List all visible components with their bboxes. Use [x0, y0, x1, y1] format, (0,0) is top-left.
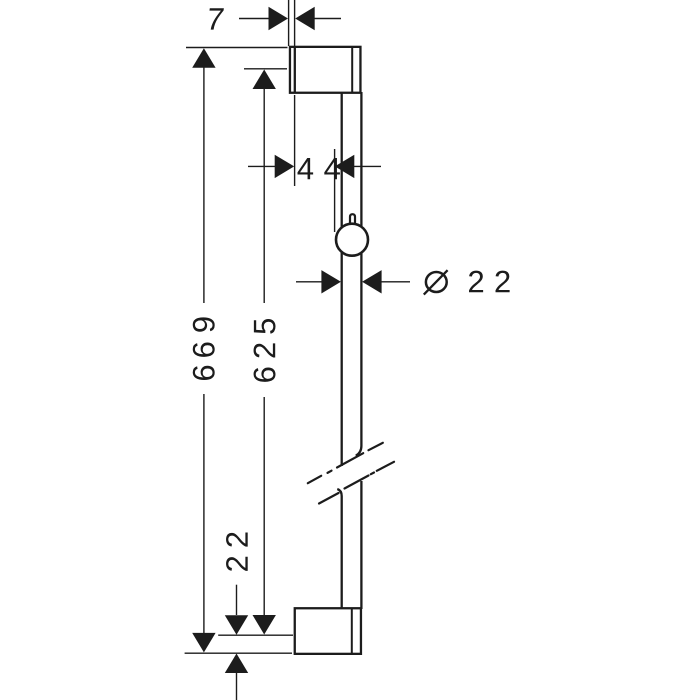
dimension label 7	[207, 8, 224, 29]
669 down arrow	[192, 633, 215, 653]
rail right edge upper segment with hook	[356, 92, 362, 456]
44 label digit 2	[324, 158, 340, 179]
break symbol lower line dash a	[319, 493, 339, 504]
669 up arrow	[192, 48, 215, 67]
7-dim right leader line	[314, 18, 341, 20]
625 dimension line lower segment	[263, 397, 265, 616]
rail left edge upper segment	[341, 92, 343, 466]
break symbol lower line dash c	[377, 462, 394, 471]
44 right-pointing arrow	[275, 155, 295, 178]
7-dim extension line A	[288, 0, 290, 46]
44 left-pointing arrow	[335, 155, 355, 178]
diameter label second digit	[496, 271, 510, 293]
break symbol upper line dash b	[337, 453, 363, 467]
22 tail line	[236, 673, 238, 700]
rail right edge lower segment	[360, 481, 362, 609]
669 label	[193, 317, 215, 380]
bracket mid extension line	[218, 634, 293, 636]
625 down arrow	[253, 615, 276, 635]
7-dim left-pointing arrow	[295, 7, 315, 30]
669 dimension line lower segment	[203, 394, 205, 634]
44 tangent extension line to knob	[334, 149, 336, 232]
diameter symbol circle	[426, 272, 447, 292]
7-dim right-pointing arrow	[269, 7, 289, 30]
diameter left-pointing arrow	[362, 270, 382, 293]
diameter right-pointing arrow	[321, 270, 341, 293]
7-dim left leader line	[239, 18, 271, 20]
669 bottom extension line	[185, 652, 292, 654]
44 left leader line	[248, 165, 276, 167]
22 up arrow	[225, 654, 248, 674]
bottom bracket inner line right	[351, 608, 353, 654]
diameter symbol slash	[424, 270, 448, 294]
22 dimension line	[236, 585, 238, 615]
625 up arrow	[253, 70, 276, 90]
break symbol upper line dash a	[308, 476, 321, 483]
7-dim extension line B	[294, 0, 296, 46]
break symbol upper line dot	[328, 471, 332, 473]
44 extension line from bracket	[294, 95, 296, 186]
44 label digit 1	[298, 158, 314, 179]
22 down arrow	[225, 615, 248, 635]
625 top extension line	[244, 68, 287, 70]
625 dimension line upper segment	[263, 88, 265, 303]
44 right leader line	[354, 165, 381, 167]
625 label	[254, 319, 276, 382]
break symbol upper line dash c	[369, 443, 383, 450]
bottom wall bracket body	[295, 608, 361, 654]
top bracket wall plate inner line	[294, 47, 296, 93]
669 top extension line	[186, 47, 288, 49]
break symbol lower line dash b	[345, 476, 369, 489]
669 dimension line upper segment	[203, 66, 205, 303]
diameter dimension left leader line	[296, 281, 323, 283]
top bracket inner line right	[351, 47, 353, 93]
22 bottom label	[226, 532, 248, 570]
slider knob	[336, 224, 368, 256]
diameter dimension right leader line	[382, 281, 411, 283]
rail left edge lower segment with hook	[337, 489, 341, 609]
diameter label 22	[469, 271, 483, 293]
slider knob nub	[350, 214, 355, 227]
top wall bracket body	[290, 47, 361, 93]
break symbol lower line dot	[371, 473, 374, 475]
